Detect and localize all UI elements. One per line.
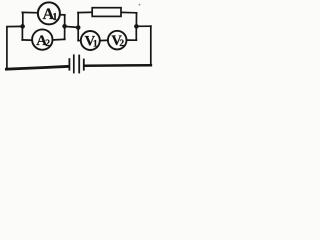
speck noise xyxy=(139,4,141,6)
svg-text:1: 1 xyxy=(52,12,57,23)
wire A2 riser down xyxy=(21,27,23,40)
wire V1 to V2 xyxy=(100,39,108,41)
battery plate tall 2 xyxy=(78,55,80,74)
svg-text:2: 2 xyxy=(45,39,50,49)
wire bottom left xyxy=(6,66,68,69)
node dot right xyxy=(134,24,139,29)
wire riser to A1 xyxy=(22,12,24,26)
ammeter A1 xyxy=(38,2,60,24)
wire A1 right xyxy=(60,14,65,16)
wire right node to edge xyxy=(136,25,151,27)
wire V1 left xyxy=(78,40,81,42)
wire R/V riser xyxy=(77,13,79,41)
wire left outer vertical xyxy=(6,27,8,69)
voltmeter V2 xyxy=(108,31,127,50)
wire A-section right vertical xyxy=(64,15,66,40)
svg-text:2: 2 xyxy=(119,39,124,49)
ammeter A2 xyxy=(32,29,52,49)
battery plate short 1 xyxy=(68,58,70,70)
wire A2 left xyxy=(22,39,32,41)
wire resistor left xyxy=(78,11,92,13)
wire right outer vertical xyxy=(150,26,152,65)
wire A2 right xyxy=(52,38,64,41)
wire resistor corner down xyxy=(135,13,137,26)
resistor R xyxy=(92,8,121,17)
battery cells xyxy=(69,54,83,73)
wire A1 left xyxy=(22,11,38,13)
battery plate tall 1 xyxy=(73,54,75,73)
wire left horizontal xyxy=(7,25,23,27)
wire V branch down xyxy=(135,26,137,40)
wire connector middle xyxy=(65,26,79,27)
node dot A-section right xyxy=(62,24,67,29)
wire bottom right xyxy=(85,64,151,67)
wire V2 right xyxy=(126,39,136,41)
battery plate short 2 xyxy=(83,59,85,71)
svg-text:1: 1 xyxy=(93,39,98,49)
node dot left xyxy=(20,24,25,29)
background xyxy=(0,0,156,84)
wire resistor right xyxy=(121,11,137,13)
node dot RV-section left xyxy=(76,25,81,30)
voltmeter V1 xyxy=(81,31,100,50)
